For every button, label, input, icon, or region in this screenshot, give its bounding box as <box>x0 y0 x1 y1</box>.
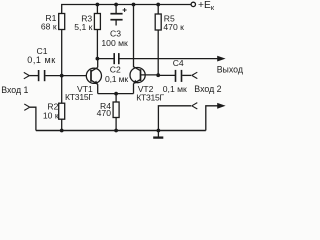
svg-text:470 к: 470 к <box>163 22 184 32</box>
svg-text:Вход 2: Вход 2 <box>194 84 221 94</box>
svg-text:С2: С2 <box>110 64 121 74</box>
wire Vyhod ground return <box>206 106 219 131</box>
capacitor C2 <box>97 53 118 64</box>
junction on rail at R3 <box>96 3 100 7</box>
terminal Vyhod arrow <box>217 56 225 62</box>
wire Vhod 1 ground return <box>30 107 36 130</box>
junction emitter node R4 <box>114 92 118 96</box>
svg-text:470: 470 <box>97 108 112 118</box>
label R2 value <box>43 101 59 120</box>
label R4 value <box>97 101 112 118</box>
wire common emitter row <box>98 93 134 95</box>
svg-text:КТ315Г: КТ315Г <box>65 92 93 102</box>
junction ground rail at R4 <box>114 129 118 133</box>
label R5 value <box>163 13 184 32</box>
resistor R2 <box>59 76 65 131</box>
capacitor C3 <box>110 5 126 26</box>
resistor R1 <box>59 14 65 76</box>
svg-text:68 к: 68 к <box>41 22 57 32</box>
resistor R5 <box>155 5 161 76</box>
svg-text:КТ315Г: КТ315Г <box>136 92 164 102</box>
resistor R3 <box>94 5 100 59</box>
wire output (to Vyhod) <box>119 58 218 60</box>
terminal Vhod 2 ground arrow <box>192 103 198 109</box>
junction on rail at C3 <box>114 3 118 7</box>
label C4 value <box>163 58 187 94</box>
capacitor C4 <box>158 70 191 82</box>
terminal +Ek <box>191 2 195 6</box>
junction on rail at R5 <box>156 3 160 7</box>
transistor VT2 <box>130 67 158 94</box>
svg-text:5,1 к: 5,1 к <box>74 22 92 32</box>
terminal Vyhod ground arrow <box>217 103 225 109</box>
svg-text:Вход 1: Вход 1 <box>1 85 28 95</box>
svg-text:10 к: 10 к <box>43 111 59 121</box>
svg-text:0,1 мк: 0,1 мк <box>27 55 55 65</box>
junction VT1 collector node <box>96 57 100 61</box>
label C1 value <box>27 46 55 65</box>
label VT1 type <box>65 84 93 102</box>
svg-text:100 мк: 100 мк <box>101 38 128 48</box>
svg-text:С3: С3 <box>110 28 121 38</box>
wire VT2 collector to rail <box>133 5 135 68</box>
terminal Vhod 1 signal arrow <box>24 72 30 78</box>
label R3 value <box>74 14 92 32</box>
junction VT2 base node <box>156 73 160 77</box>
svg-text:Выход: Выход <box>217 64 243 74</box>
capacitor C1 <box>29 70 86 81</box>
terminal Vhod 1 ground arrow <box>24 104 30 110</box>
junction ground rail at ground symbol <box>157 129 161 133</box>
label C2 value <box>105 64 128 84</box>
label R1 value <box>41 13 57 31</box>
svg-text:0,1 мк: 0,1 мк <box>105 74 128 84</box>
junction ground rail at R2 <box>60 129 64 133</box>
wire ground rail <box>36 130 206 132</box>
label C3 value <box>101 28 128 48</box>
terminal Vhod 2 signal arrow <box>192 72 198 78</box>
resistor R4 <box>113 94 119 131</box>
wire +Ek rail <box>62 5 191 14</box>
wire Vhod 2 ground return <box>158 106 191 131</box>
svg-text:+Ек: +Ек <box>198 0 215 12</box>
junction VT1 base node <box>60 74 64 78</box>
label VT2 type <box>136 84 164 102</box>
svg-text:С4: С4 <box>173 58 184 68</box>
ground <box>153 131 163 138</box>
transistor VT1 <box>86 59 101 94</box>
junction on rail at VT2 collector <box>132 3 136 7</box>
svg-text:0,1 мк: 0,1 мк <box>163 84 187 94</box>
